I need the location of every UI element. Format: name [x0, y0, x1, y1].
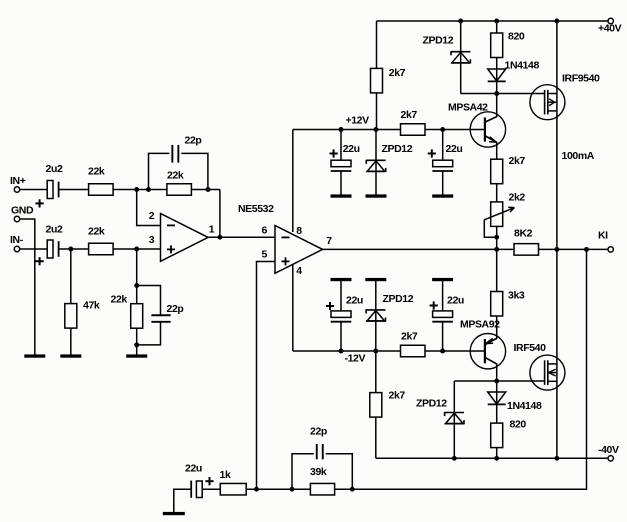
svg-text:2k7: 2k7 [401, 109, 418, 121]
label 22u C5 [346, 295, 363, 307]
capacitor 22p feedback op-amp2 [317, 444, 323, 459]
junction +40V rail / 820 [494, 19, 499, 24]
junction -12V rail / ZPD12 [373, 349, 378, 354]
svg-text:ZPD12: ZPD12 [382, 143, 413, 155]
label IRF540 [514, 342, 547, 354]
zener ZPD12 top [451, 51, 470, 63]
resistor 39k feedback [310, 483, 334, 495]
label +40V [598, 23, 622, 35]
terminal IN- [14, 246, 19, 251]
junction IN- 47k tap [68, 247, 73, 252]
svg-text:6: 6 [262, 225, 268, 237]
wire MPSA42 emitter chain through 2k7 and 2k2 to output line [485, 136, 497, 250]
label IN+ [10, 175, 26, 187]
svg-text:-40V: -40V [598, 444, 619, 456]
resistor 8K2 output [514, 244, 539, 256]
capacitor 22u +12V left [331, 160, 352, 171]
polarity + C4 [428, 149, 436, 157]
label 2k2 trimmer [509, 192, 526, 204]
trimmer 2k2 [491, 202, 503, 227]
svg-text:820: 820 [508, 31, 525, 43]
svg-text:22u: 22u [185, 463, 202, 475]
svg-text:IRF9540: IRF9540 [562, 73, 600, 85]
wire from +40V rail through zener ZPD12 to gate node [460, 21, 462, 94]
label 1N4148 top [505, 60, 540, 72]
svg-text:1k: 1k [220, 469, 231, 481]
capacitor 2u2 IN+ [47, 181, 58, 199]
wire output node through 3k3 to MPSA92 emitter [485, 249, 497, 345]
label MPSA92 [460, 319, 500, 331]
resistor 3k3 [491, 292, 503, 317]
label 22p feedback [185, 135, 202, 147]
svg-text:1N4148: 1N4148 [507, 400, 542, 412]
junction +40V rail / zener [458, 19, 463, 24]
svg-text:GND: GND [11, 205, 34, 217]
junction upper gate node [494, 91, 499, 96]
junction op-amp1 output feedback tap [217, 235, 222, 240]
label 22k feedback [167, 170, 184, 182]
svg-text:8K2: 8K2 [514, 228, 533, 240]
svg-text:2k7: 2k7 [509, 155, 526, 167]
label 22k R1 [88, 166, 105, 178]
transistor M2 IRF540 [530, 355, 565, 390]
ground ZPD12 -12V [365, 278, 386, 281]
svg-text:22p: 22p [185, 135, 202, 147]
wire 22p shunt left top [137, 286, 161, 316]
svg-text:22p: 22p [310, 426, 327, 438]
junction output / IRF drains [554, 247, 559, 252]
junction -40V rail / 820 [494, 456, 499, 461]
svg-text:4: 4 [296, 265, 302, 277]
svg-text:IRF540: IRF540 [514, 342, 547, 354]
transistor Q2 MPSA92 [470, 334, 505, 369]
wire to op-amp pin 2 [137, 190, 161, 226]
wire 22u cap to ground [340, 171, 342, 196]
svg-text:22u: 22u [446, 143, 463, 155]
svg-text:5: 5 [262, 249, 268, 261]
wire ground to 22u cap4 [442, 280, 444, 311]
label pin 6 [262, 225, 268, 237]
svg-text:ZPD12: ZPD12 [416, 398, 447, 410]
wire upper gate node horizontal [461, 93, 545, 95]
resistor 22k IN- series [89, 243, 114, 255]
resistor 2k7 +12V rail [401, 124, 426, 136]
junction lower gate node [494, 379, 499, 384]
resistor 22k to ground [131, 304, 143, 329]
wire 2u2 to 22k to feedback node [59, 189, 220, 191]
wire ZPD12 from ground to -12V rail [375, 280, 377, 352]
ground ZPD12 +12V [366, 194, 387, 197]
wire ZPD12 from +12V rail to ground [375, 130, 377, 197]
capacitor 2u2 IN- [47, 240, 58, 258]
wire IN+ to 2u2 [20, 189, 48, 191]
wire lower gate node horizontal [454, 380, 544, 382]
junction +40V rail / IRF9540 source [554, 19, 559, 24]
label 22u C3 [343, 143, 360, 155]
trimmer 2k2 arrow [484, 207, 514, 220]
resistor 1k feedback input [220, 483, 246, 495]
wire 39k/22p loop left [292, 454, 314, 489]
label 2k7 bottom [389, 390, 406, 402]
svg-text:MPSA42: MPSA42 [448, 102, 488, 114]
label -40V [598, 444, 619, 456]
label GND [11, 205, 34, 217]
wire -12V rail down through 2k7 to -40V rail [375, 351, 377, 458]
wire 22p shunt bottom [137, 322, 161, 345]
label +12V [346, 115, 370, 127]
terminal +40V [608, 18, 613, 23]
wire trimmer wiper [484, 220, 496, 237]
junction +12V rail / ZPD12 [374, 127, 379, 132]
terminal IN+ [14, 187, 19, 192]
wire GND input to ground [20, 219, 35, 356]
svg-text:100mA: 100mA [562, 150, 595, 162]
op-amp NE5532B second half [275, 226, 323, 274]
label 100mA [562, 150, 595, 162]
wire from +40V rail down through R 2k7 to +12V rail [376, 21, 378, 130]
capacitor 22u -12V right [432, 311, 453, 322]
resistor 2k7 to -40V [370, 393, 382, 418]
svg-text:+40V: +40V [598, 23, 622, 35]
wire feedback from KI down [352, 249, 586, 489]
wire NE5532 pin 8 to +12V rail [292, 130, 294, 233]
wire 22u cap2 to +12V rail [442, 130, 444, 161]
polarity + C2 [36, 257, 44, 265]
svg-text:KI: KI [598, 230, 608, 242]
svg-text:22k: 22k [111, 294, 128, 306]
terminal GND [14, 216, 19, 221]
wire MPSA42 collector [485, 94, 497, 123]
capacitor 22p feedback op-amp1 [172, 145, 178, 163]
junction feedback / 39k right [350, 487, 355, 492]
junction IN+ 22k / pin2 tap [134, 187, 139, 192]
svg-text:2u2: 2u2 [46, 163, 63, 175]
transistor Q1 MPSA42 [470, 112, 505, 147]
svg-text:2k7: 2k7 [389, 67, 406, 79]
junction IN- 22k tap [134, 247, 139, 252]
label 2k7 -12V [401, 331, 418, 343]
svg-text:1: 1 [209, 224, 215, 236]
label 1k [220, 469, 231, 481]
svg-text:IN-: IN- [10, 234, 24, 246]
wire output KI line [323, 248, 611, 250]
resistor 2k7 from +40V [371, 68, 383, 93]
junction -12V rail / 22u3 [339, 349, 344, 354]
resistor 22k IN+ series [89, 184, 114, 196]
label 22u C6 [447, 295, 464, 307]
zener ZPD12 +12V rail [366, 160, 385, 172]
wire ground to 22u cap3 [340, 280, 342, 311]
label 22p shunt [167, 303, 184, 315]
label IN- [10, 234, 24, 246]
wire 22u cap4 to -12V rail [442, 322, 444, 351]
terminal KI output [608, 247, 613, 252]
label 22p feedback2 [310, 426, 327, 438]
svg-text:22k: 22k [167, 170, 184, 182]
ground 47k [60, 354, 81, 357]
svg-text:2k7: 2k7 [401, 331, 418, 343]
svg-text:1N4148: 1N4148 [505, 60, 540, 72]
junction 22p feedback left [146, 187, 151, 192]
zener ZPD12 -12V rail [366, 309, 385, 321]
svg-text:NE5532: NE5532 [238, 203, 274, 215]
svg-text:22u: 22u [346, 295, 363, 307]
label 22k R2 [88, 225, 105, 237]
label 820 top [508, 31, 525, 43]
label 2u2 C2 [46, 224, 63, 236]
resistor 47k [65, 304, 77, 329]
wire IRF9540 drain-source vertical [556, 21, 558, 249]
label 8K2 [514, 228, 533, 240]
wire lower gate node through 1N4148 and 820 to -40V rail [496, 381, 498, 458]
label IRF9540 [562, 73, 600, 85]
wire 22p feedback right [181, 153, 208, 189]
wire from +40V rail through 820 and 1N4148 to gate node [496, 21, 498, 94]
ground 22k/22p [126, 354, 147, 357]
wire 22u cap to +12V rail [340, 130, 342, 161]
svg-text:22u: 22u [447, 295, 464, 307]
diode 1N4148 bottom [488, 392, 506, 404]
ground GND input [24, 354, 45, 357]
svg-text:2k2: 2k2 [509, 192, 526, 204]
svg-text:22k: 22k [88, 225, 105, 237]
svg-text:47k: 47k [83, 300, 100, 312]
label pin 4 [296, 265, 302, 277]
label 2k7 +12V [401, 109, 418, 121]
label pin 5 [262, 249, 268, 261]
svg-text:+12V: +12V [346, 115, 370, 127]
resistor 22k feedback [167, 184, 192, 196]
wire through 22k to ground [136, 249, 138, 356]
label 47k [83, 300, 100, 312]
svg-text:-12V: -12V [345, 353, 366, 365]
wire 39k/22p loop right [326, 454, 353, 489]
capacitor 22u -12V left [331, 311, 352, 322]
label ZPD12 Z5 [416, 398, 447, 410]
label MPSA42 [448, 102, 488, 114]
svg-text:2k7: 2k7 [389, 390, 406, 402]
label pin 2 [149, 210, 155, 222]
wire feedback node down to op-amp output [219, 190, 221, 238]
svg-text:22k: 22k [88, 166, 105, 178]
label 22u C4 [446, 143, 463, 155]
label pin 8 [296, 225, 302, 237]
wire from ground to 22u coupling cap [174, 489, 191, 513]
junction -40V rail / IRF540 source [554, 456, 559, 461]
label 820 bottom [510, 419, 527, 431]
label KI [598, 230, 608, 242]
wire through 47k to ground [70, 249, 72, 356]
label 22k shunt [111, 294, 128, 306]
resistor 2k7 -12V rail [401, 345, 426, 357]
label 2u2 C1 [46, 163, 63, 175]
wire NE5532 pin 5 to feedback node [257, 262, 276, 490]
capacitor 22u feedback input [191, 481, 202, 498]
label NE5532 [238, 203, 274, 215]
label 2k7 emitter [509, 155, 526, 167]
label 2k7 top [389, 67, 406, 79]
label ZPD12 Z2 [382, 143, 413, 155]
wire op-amp1 output to op-amp2 pin 6 [209, 236, 276, 238]
wire 22u cap2 to ground [442, 171, 444, 196]
svg-text:ZPD12: ZPD12 [423, 35, 454, 47]
wire 22p feedback left [149, 153, 170, 189]
transistor M1 IRF9540 [530, 85, 565, 120]
svg-text:39k: 39k [310, 466, 327, 478]
label pin 3 [149, 234, 155, 246]
label -12V [345, 353, 366, 365]
junction +12V rail / 22u [339, 127, 344, 132]
svg-text:8: 8 [296, 225, 302, 237]
label 1N4148 bottom [507, 400, 542, 412]
wire NE5532 pin 4 to -12V rail [292, 264, 294, 351]
zener ZPD12 bottom [445, 412, 464, 424]
capacitor 22u +12V right [432, 160, 453, 171]
polarity + C6 [430, 301, 438, 309]
junction trimmer wiper [494, 235, 499, 240]
ground 22u +12V right [432, 194, 453, 197]
ground feedback 22u [163, 512, 185, 515]
junction -40V rail / ZPD12 [452, 456, 457, 461]
junction 22p shunt bottom [134, 342, 139, 347]
label pin 1 [209, 224, 215, 236]
resistor 820 top [491, 33, 503, 58]
diode 1N4148 top [488, 69, 506, 81]
wire feedback bottom line to 1k [196, 488, 352, 490]
label pin 7 [326, 235, 332, 247]
junction feedback / pin5 [254, 487, 259, 492]
resistor 820 bottom [491, 423, 503, 448]
op-amp NE5532A first half [161, 214, 209, 262]
svg-text:3: 3 [149, 234, 155, 246]
svg-text:7: 7 [326, 235, 332, 247]
wire -40V rail [376, 457, 611, 459]
junction +12V rail / 22u2 [440, 127, 445, 132]
wire -12V rail [293, 350, 485, 352]
polarity + C5 [326, 302, 334, 310]
junction output / trimmer chain [494, 247, 499, 252]
ground 22u +12V left [331, 194, 352, 197]
resistor 2k7 MPSA42 emitter [491, 159, 503, 184]
label ZPD12 Z1 [423, 35, 454, 47]
svg-text:820: 820 [510, 419, 527, 431]
svg-text:22u: 22u [343, 143, 360, 155]
junction 22p feedback right [206, 187, 211, 192]
svg-text:2: 2 [149, 210, 155, 222]
ground 22u -12V right [432, 278, 453, 281]
junction 22p shunt top [134, 283, 139, 288]
capacitor 22p shunt [151, 315, 170, 322]
label 39k [310, 466, 327, 478]
junction feedback / 39k left [290, 487, 295, 492]
wire lower gate node through zener ZPD12 to -40V rail [453, 381, 455, 458]
wire +40V top rail [377, 20, 611, 22]
wire 2u2 to 22k to op-amp pin 3 [59, 248, 161, 250]
svg-text:22p: 22p [167, 303, 184, 315]
ground 22u -12V left [331, 278, 352, 281]
label 3k3 [508, 290, 525, 302]
polarity + C1 [36, 199, 44, 207]
svg-text:2u2: 2u2 [46, 224, 63, 236]
svg-text:MPSA92: MPSA92 [460, 319, 500, 331]
terminal -40V [608, 456, 613, 461]
svg-text:IN+: IN+ [10, 175, 26, 187]
wire MPSA92 collector [485, 357, 497, 381]
wire IRF540 drain-source vertical [556, 249, 558, 458]
label 22u C7 [185, 463, 202, 475]
label ZPD12 Z4 [383, 293, 414, 305]
junction -12V rail / 22u4 [440, 349, 445, 354]
polarity + C3 [330, 149, 338, 157]
wire IN- to 2u2 [20, 248, 48, 250]
svg-text:ZPD12: ZPD12 [383, 293, 414, 305]
polarity + C7 [205, 477, 213, 485]
wire +12V rail [293, 129, 485, 131]
wire 22u cap3 to -12V rail [340, 322, 342, 351]
junction output / feedback [584, 247, 589, 252]
svg-text:3k3: 3k3 [508, 290, 525, 302]
